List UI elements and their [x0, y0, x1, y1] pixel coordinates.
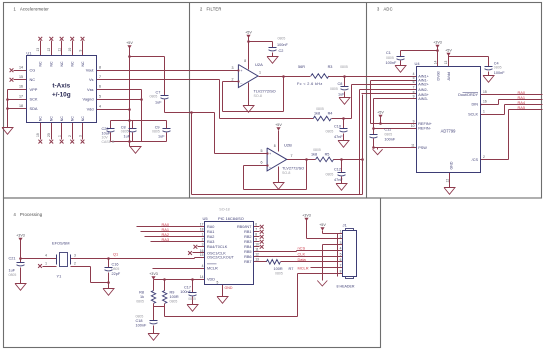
svg-text:TLV2772/SO: TLV2772/SO	[254, 89, 276, 94]
svg-text:Y1: Y1	[57, 274, 62, 279]
svg-text:15: 15	[200, 253, 204, 257]
svg-text:5: 5	[217, 281, 219, 285]
svg-text:12: 12	[255, 253, 259, 257]
svg-text:GND: GND	[449, 161, 453, 169]
svg-text:RB7: RB7	[244, 260, 251, 264]
svg-text:R5: R5	[325, 153, 330, 157]
svg-text:3 ADC: 3 ADC	[377, 6, 393, 11]
svg-text:0805: 0805	[386, 56, 394, 60]
svg-text:1: 1	[202, 233, 204, 237]
svg-text:+5V: +5V	[126, 41, 133, 45]
svg-text:6: 6	[413, 80, 415, 84]
svg-text:0805: 0805	[150, 94, 158, 98]
svg-text:CLK: CLK	[298, 252, 306, 257]
svg-text:8: 8	[99, 65, 101, 69]
svg-text:EFOS/SM: EFOS/SM	[52, 241, 70, 246]
svg-text:C17: C17	[184, 286, 191, 290]
svg-text:13: 13	[444, 60, 448, 64]
svg-text:6: 6	[255, 223, 257, 227]
svg-text:Q1: Q1	[113, 252, 118, 257]
svg-text:5: 5	[340, 252, 342, 256]
svg-text:C11: C11	[384, 128, 391, 132]
svg-text:0805: 0805	[326, 129, 334, 133]
svg-text:TLV2772/SO: TLV2772/SO	[282, 165, 304, 170]
svg-text:C21: C21	[9, 257, 16, 261]
svg-text:7: 7	[255, 228, 257, 232]
svg-text:0805: 0805	[384, 132, 392, 136]
svg-text:SO-18: SO-18	[219, 208, 229, 212]
svg-text:1k8: 1k8	[311, 153, 317, 157]
svg-text:SDA: SDA	[30, 106, 38, 111]
svg-text:16: 16	[483, 99, 487, 103]
svg-text:2: 2	[232, 77, 234, 81]
svg-text:3: 3	[340, 241, 342, 245]
svg-text:C12: C12	[334, 167, 341, 171]
svg-text:2: 2	[340, 235, 342, 239]
svg-text:3: 3	[202, 243, 204, 247]
svg-text:U5: U5	[203, 216, 209, 221]
svg-text:8: 8	[274, 144, 276, 148]
svg-text:RA4/T0CLK: RA4/T0CLK	[207, 245, 228, 249]
svg-text:Vdd: Vdd	[87, 107, 94, 112]
svg-text:6: 6	[340, 258, 342, 262]
svg-text:0805: 0805	[170, 300, 178, 304]
svg-text:C16: C16	[112, 263, 119, 267]
svg-text:U2B: U2B	[284, 143, 292, 148]
svg-text:8: 8	[255, 233, 257, 237]
svg-text:3: 3	[74, 253, 76, 257]
svg-text:4 Processing: 4 Processing	[14, 212, 43, 217]
svg-text:REFIN-: REFIN-	[418, 127, 431, 131]
svg-text:C2: C2	[279, 49, 284, 53]
svg-text:2 FILTER: 2 FILTER	[200, 6, 222, 11]
svg-text:1: 1	[340, 230, 342, 234]
svg-text:RB5: RB5	[244, 250, 251, 254]
svg-text:1 Accelerometer: 1 Accelerometer	[14, 6, 50, 11]
svg-text:4: 4	[202, 264, 204, 268]
svg-text:0805: 0805	[136, 315, 144, 319]
svg-text:15: 15	[483, 90, 487, 94]
svg-text:NC: NC	[30, 77, 36, 82]
svg-text:RA2: RA2	[207, 235, 214, 239]
svg-text:OSC2/CLKOUT: OSC2/CLKOUT	[207, 256, 234, 260]
svg-text:7: 7	[291, 154, 293, 158]
svg-text:0805: 0805	[121, 130, 129, 134]
svg-text:SCLK: SCLK	[468, 113, 478, 117]
svg-text:3: 3	[78, 135, 82, 137]
svg-text:14: 14	[200, 275, 204, 279]
svg-text:1: 1	[483, 109, 485, 113]
svg-text:RB4: RB4	[244, 245, 251, 249]
svg-text:+3V3: +3V3	[302, 214, 311, 218]
svg-text:0805: 0805	[316, 107, 324, 111]
svg-text:20: 20	[47, 133, 51, 137]
svg-text:RB1: RB1	[244, 230, 251, 234]
svg-text:1uF: 1uF	[158, 134, 165, 138]
svg-text:1k8: 1k8	[314, 112, 320, 116]
svg-text:PSW: PSW	[418, 146, 427, 150]
svg-text:19: 19	[36, 133, 40, 137]
svg-text:8: 8	[340, 269, 342, 273]
svg-text:2: 2	[74, 262, 76, 266]
svg-text:REFIN+: REFIN+	[418, 122, 432, 126]
svg-text:0805: 0805	[112, 267, 120, 271]
svg-text:2: 2	[68, 135, 72, 137]
svg-text:Vagnd: Vagnd	[83, 97, 94, 102]
svg-text:Vss: Vss	[87, 87, 94, 92]
svg-text:100nF: 100nF	[180, 290, 191, 294]
svg-text:0805: 0805	[313, 148, 321, 152]
svg-text:10: 10	[411, 124, 415, 128]
svg-text:17: 17	[200, 223, 204, 227]
svg-text:R7: R7	[289, 267, 294, 271]
svg-text:RB3: RB3	[244, 240, 251, 244]
svg-text:+5V: +5V	[245, 31, 252, 35]
svg-text:11: 11	[255, 248, 259, 252]
svg-text:6: 6	[261, 161, 263, 165]
svg-text:56R: 56R	[298, 65, 305, 69]
svg-text:100nF: 100nF	[386, 61, 397, 65]
svg-text:VPP: VPP	[30, 87, 38, 92]
svg-text:7: 7	[413, 85, 415, 89]
svg-text:R4: R4	[328, 112, 333, 116]
svg-text:4: 4	[99, 104, 101, 108]
svg-text:1: 1	[259, 71, 261, 75]
svg-text:RA5: RA5	[518, 105, 526, 110]
svg-text:AIN2+: AIN2+	[418, 83, 429, 87]
svg-text:4: 4	[45, 253, 47, 257]
svg-text:11: 11	[57, 48, 61, 52]
svg-text:RB2: RB2	[244, 235, 251, 239]
svg-text:4: 4	[340, 247, 342, 251]
svg-text:100R: 100R	[170, 295, 179, 299]
svg-text:16: 16	[19, 85, 23, 89]
svg-text:0805: 0805	[330, 87, 338, 91]
svg-text:NC: NC	[81, 61, 85, 67]
svg-text:9: 9	[413, 94, 415, 98]
svg-text:Dout/DRDY: Dout/DRDY	[458, 93, 478, 97]
svg-text:10: 10	[255, 243, 259, 247]
svg-text:47nF: 47nF	[334, 178, 343, 182]
svg-text:9: 9	[78, 50, 82, 52]
svg-text:Vout: Vout	[86, 68, 95, 73]
svg-text:+3V3: +3V3	[149, 272, 158, 276]
svg-text:R8: R8	[139, 291, 144, 295]
svg-text:14: 14	[433, 60, 437, 64]
svg-text:13: 13	[255, 258, 259, 262]
svg-text:Vs: Vs	[89, 77, 94, 82]
svg-text:0805: 0805	[326, 172, 334, 176]
svg-text:6: 6	[99, 85, 101, 89]
svg-text:0805: 0805	[494, 66, 502, 70]
svg-text:RB6: RB6	[244, 255, 251, 259]
svg-text:SO-8: SO-8	[282, 171, 290, 175]
svg-text:1: 1	[45, 262, 47, 266]
svg-text:RA3: RA3	[162, 237, 170, 242]
svg-text:100nF: 100nF	[384, 137, 395, 141]
svg-text:5: 5	[261, 149, 263, 153]
svg-text:+5V: +5V	[377, 111, 384, 115]
svg-text:+3V3: +3V3	[433, 41, 442, 45]
svg-text:14: 14	[19, 65, 23, 69]
svg-text:5: 5	[99, 94, 101, 98]
svg-text:C1: C1	[386, 51, 391, 55]
svg-text:PIC 16C84/SO: PIC 16C84/SO	[218, 216, 244, 221]
svg-text:0805: 0805	[188, 297, 196, 301]
svg-text:RB0/INT: RB0/INT	[237, 225, 252, 229]
svg-text:9: 9	[255, 238, 257, 242]
svg-text:0805: 0805	[275, 272, 283, 276]
svg-text:NC: NC	[50, 116, 54, 122]
svg-text:+/-10g: +/-10g	[52, 91, 71, 98]
svg-text:+5V: +5V	[319, 223, 326, 227]
svg-text:AVdd: AVdd	[447, 72, 451, 81]
svg-text:NC: NC	[81, 116, 85, 122]
svg-text:0805: 0805	[152, 130, 160, 134]
svg-text:RA1: RA1	[207, 230, 214, 234]
svg-text:1uF: 1uF	[124, 134, 131, 138]
svg-text:18: 18	[19, 104, 23, 108]
svg-text:DVdd: DVdd	[436, 72, 440, 81]
svg-text:100nF: 100nF	[136, 324, 147, 328]
svg-text:GND: GND	[225, 286, 233, 290]
svg-text:CG: CG	[30, 68, 36, 73]
svg-text:t-Axis: t-Axis	[52, 83, 70, 90]
svg-text:1: 1	[57, 135, 61, 137]
svg-text:1k: 1k	[140, 295, 144, 299]
svg-text:18: 18	[200, 228, 204, 232]
svg-text:C18: C18	[136, 319, 143, 323]
svg-text:RA3: RA3	[207, 240, 214, 244]
svg-text:MCLR: MCLR	[298, 265, 309, 270]
svg-text:NC: NC	[39, 61, 43, 67]
svg-text:Fc < 2.6 kHz: Fc < 2.6 kHz	[297, 82, 323, 86]
svg-text:U4: U4	[415, 61, 421, 66]
svg-text:AIN2-: AIN2-	[418, 88, 428, 92]
svg-text:11: 11	[411, 143, 415, 147]
svg-text:NC: NC	[71, 116, 75, 122]
svg-text:C10: C10	[334, 124, 341, 128]
svg-text:1uF: 1uF	[338, 93, 345, 97]
svg-text:/CS: /CS	[472, 158, 479, 162]
svg-text:100nF: 100nF	[277, 43, 288, 47]
svg-text:VDD: VDD	[207, 278, 215, 282]
svg-text:U2A: U2A	[255, 62, 263, 67]
svg-text:CASE B: CASE B	[102, 140, 116, 144]
svg-text:9: 9	[413, 119, 415, 123]
svg-text:NC: NC	[60, 116, 64, 122]
svg-text:Data: Data	[298, 257, 307, 262]
svg-text:10: 10	[68, 48, 72, 52]
svg-text:47nF: 47nF	[334, 135, 343, 139]
svg-text:1uF: 1uF	[155, 100, 162, 104]
svg-text:R3: R3	[328, 65, 333, 69]
svg-text:AIN3-: AIN3-	[418, 97, 428, 101]
svg-text:NC: NC	[50, 61, 54, 67]
svg-text:3: 3	[232, 66, 234, 70]
svg-text:8: 8	[244, 59, 246, 63]
svg-text:NC: NC	[60, 61, 64, 67]
svg-text:+5V: +5V	[275, 123, 282, 127]
svg-text:NC: NC	[71, 61, 75, 67]
svg-text:0805: 0805	[340, 65, 348, 69]
svg-text:C8: C8	[338, 82, 343, 86]
svg-text:2: 2	[202, 238, 204, 242]
svg-text:2: 2	[483, 155, 485, 159]
svg-text:12: 12	[445, 179, 449, 183]
svg-text:13: 13	[36, 48, 40, 52]
svg-text:22pF: 22pF	[112, 272, 121, 276]
svg-text:0805: 0805	[136, 300, 144, 304]
svg-text:12: 12	[47, 48, 51, 52]
svg-text:0805: 0805	[9, 273, 17, 277]
svg-text:SCK: SCK	[30, 97, 38, 102]
svg-text:U1: U1	[26, 51, 32, 56]
svg-text:7: 7	[340, 264, 342, 268]
svg-text:RA0: RA0	[207, 225, 214, 229]
svg-text:AD7799: AD7799	[441, 129, 457, 134]
svg-text:MCLR: MCLR	[207, 266, 218, 270]
svg-text:SO-8: SO-8	[254, 94, 262, 98]
svg-text:NC: NC	[39, 116, 43, 122]
svg-text:100R: 100R	[274, 267, 283, 271]
svg-text:100nF: 100nF	[494, 71, 505, 75]
svg-text:0805: 0805	[278, 37, 286, 41]
svg-text:17: 17	[19, 94, 23, 98]
svg-text:7: 7	[99, 75, 101, 79]
svg-text:+5V: +5V	[445, 49, 452, 53]
svg-text:8 HEADER: 8 HEADER	[337, 284, 355, 288]
svg-text:1uF: 1uF	[9, 269, 16, 273]
svg-text:+3V3: +3V3	[16, 234, 25, 238]
svg-text:R9: R9	[170, 291, 175, 295]
svg-text:15: 15	[19, 75, 23, 79]
svg-text:nCS: nCS	[298, 246, 306, 251]
svg-text:DIN: DIN	[471, 103, 478, 107]
